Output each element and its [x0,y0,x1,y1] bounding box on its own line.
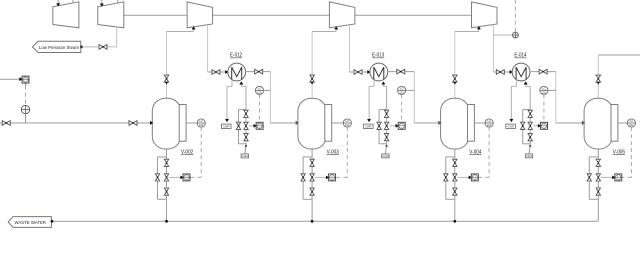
svg-text:E-013: E-013 [372,53,384,59]
svg-text:101: 101 [199,123,204,127]
svg-text:V-005: V-005 [613,149,625,155]
svg-text:CWS: CWS [242,154,248,158]
svg-text:CWR: CWR [507,125,513,129]
svg-text:CWR: CWR [223,125,229,129]
svg-text:LC: LC [487,119,490,123]
svg-text:WASTE WATER: WASTE WATER [15,220,47,225]
svg-text:E-012: E-012 [230,53,242,59]
svg-text:101: 101 [399,91,404,95]
svg-text:LC: LC [258,87,261,91]
svg-text:CWR: CWR [365,125,371,129]
svg-text:E-014: E-014 [514,53,526,59]
svg-text:LC: LC [630,119,633,123]
svg-text:Low Pressure Steam: Low Pressure Steam [39,45,79,51]
svg-text:101: 101 [257,91,262,95]
svg-text:LC: LC [199,119,202,123]
svg-text:LC: LC [346,119,349,123]
svg-text:V-003: V-003 [327,149,339,155]
svg-text:101: 101 [345,123,350,127]
svg-text:101: 101 [487,123,492,127]
svg-text:LC: LC [542,87,545,91]
svg-text:CWS: CWS [382,154,388,158]
svg-text:LC: LC [400,87,403,91]
svg-text:101: 101 [542,91,547,95]
svg-text:V-004: V-004 [469,149,481,155]
svg-text:V-002: V-002 [181,149,193,155]
svg-text:CWS: CWS [526,154,532,158]
svg-text:101: 101 [629,123,634,127]
